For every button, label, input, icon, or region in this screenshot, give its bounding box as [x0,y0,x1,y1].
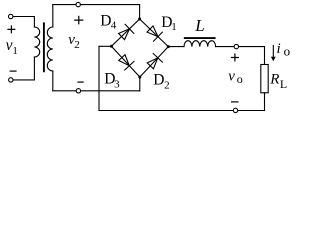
resistor RL [261,65,268,93]
terminal v1 top [9,14,13,18]
polarity minus output [231,101,239,103]
junction dot bridge bottom corner [138,76,141,79]
inductor L winding [184,41,216,47]
transformer secondary winding [47,27,52,71]
terminal v1 bottom [9,78,13,82]
label vo [228,69,243,87]
junction dot bridge left corner [110,45,113,48]
wire bottom rail [99,110,265,112]
polarity plus v2 [74,16,83,25]
svg-text:2: 2 [164,80,170,92]
svg-text:L: L [194,16,204,35]
svg-text:L: L [280,77,287,91]
transformer primary winding [34,27,39,57]
polarity plus v1 [7,25,15,33]
polarity minus v1 [10,70,17,72]
svg-text:3: 3 [114,79,120,91]
svg-text:v: v [228,69,235,85]
label D4 [100,12,117,31]
wire primary top vertical [33,17,35,28]
svg-text:1: 1 [171,21,177,33]
wire v1 bottom [13,79,34,81]
label D1 [161,14,177,33]
label v2 [68,32,80,51]
polarity minus v2 [77,81,83,83]
svg-text:4: 4 [111,19,117,31]
wire primary bottom vertical [33,57,35,80]
wire bridge left corner to left [99,45,111,47]
wire top rail drop to bridge [139,5,141,19]
junction dot bridge top corner [138,18,141,21]
diode D4 [119,24,134,39]
wire bottom rail rise to bridge [139,77,141,91]
svg-text:D: D [153,71,164,88]
svg-text:R: R [269,72,279,88]
terminal v2 bottom [76,89,80,93]
label io [277,41,291,58]
svg-text:o: o [237,72,243,86]
wire bridge right corner to inductor [168,46,184,48]
svg-text:i: i [277,41,281,57]
terminal v2 top [76,2,80,6]
terminal output minus [233,108,237,112]
wire inductor to output [216,46,265,48]
svg-text:1: 1 [12,45,18,57]
wire secondary bottom rail [53,90,140,92]
wire bridge edge bottom-left [111,46,139,77]
label D2 [153,71,169,91]
wire bridge edge bottom-right [140,47,169,77]
diode D3 [119,55,134,70]
transformer core [43,23,45,71]
svg-text:2: 2 [74,39,80,51]
junction dot bridge right corner [167,45,170,48]
wire secondary top vertical [52,5,54,27]
current arrow io [271,45,276,61]
diode D1 [147,26,162,41]
label D3 [104,70,120,90]
wire output drop to RL [264,47,266,65]
diode D2 [147,54,162,69]
polarity plus output [231,54,239,62]
wire bridge edge top-left [111,19,139,46]
wire bottom rail rise to RL [264,93,266,111]
wire secondary bottom vertical [52,71,54,91]
wire bridge edge top-right [140,19,169,47]
label RL [269,72,287,91]
label v1 [6,37,18,57]
wire left drop to bottom rail [98,46,100,110]
svg-text:o: o [284,44,291,59]
inductor L core bar [185,37,215,39]
wire v1 top [13,16,34,18]
wire secondary top rail [53,4,140,6]
terminal output plus [234,44,238,48]
